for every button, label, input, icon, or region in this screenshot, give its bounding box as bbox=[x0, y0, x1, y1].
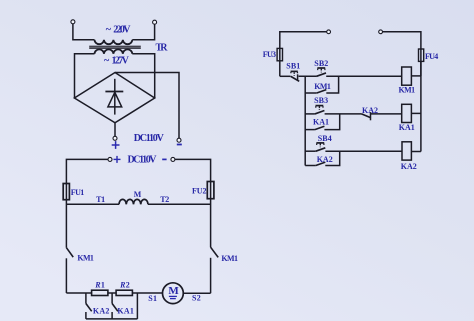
svg-text:FU1: FU1 bbox=[71, 188, 85, 197]
terminal main minus bbox=[171, 157, 175, 161]
wire: bridge plus output bbox=[114, 123, 116, 137]
terminal DC minus bbox=[177, 138, 181, 142]
fuse FU2 bbox=[207, 182, 214, 199]
contact KA1 blade (bypass R2) bbox=[112, 304, 118, 312]
contact KM1 aux rung bbox=[305, 92, 317, 94]
wire: right 220V lead bbox=[132, 24, 154, 40]
resistor R2 bbox=[116, 290, 132, 295]
svg-text:KA2: KA2 bbox=[401, 162, 417, 171]
wire: KA2 coil to right rail bbox=[411, 151, 421, 153]
fuse FU1 bbox=[63, 184, 69, 200]
contact KM1 left (blade) bbox=[66, 248, 73, 257]
terminal L2 (220V right) bbox=[153, 20, 157, 24]
pushbutton SB1 (NC) bbox=[280, 71, 299, 81]
wire: field branch right bbox=[148, 203, 211, 205]
wire: main circuit plus feed bbox=[66, 159, 108, 247]
svg-text:220V: 220V bbox=[113, 24, 131, 35]
svg-text:S1: S1 bbox=[148, 294, 157, 303]
svg-text:KM1: KM1 bbox=[314, 82, 331, 91]
plus sign main bbox=[114, 156, 121, 163]
wire: KA2 aux to junction bbox=[325, 151, 339, 165]
svg-text:KA2: KA2 bbox=[362, 106, 378, 115]
svg-text:M: M bbox=[134, 190, 142, 199]
svg-text:FU2: FU2 bbox=[192, 186, 207, 195]
svg-text:SB4: SB4 bbox=[318, 134, 332, 143]
motor field winding M bbox=[119, 199, 148, 204]
wire: KA1 coil to right rail bbox=[411, 112, 421, 114]
wire: left 220V lead bbox=[73, 24, 95, 40]
wire: right rail bbox=[420, 61, 422, 151]
contact KM1 aux blade bbox=[317, 90, 327, 93]
wire: bypass drop 1 lower bbox=[85, 312, 87, 319]
wire: bypass drop 1 bbox=[85, 293, 87, 304]
wire: bottom run left bbox=[66, 292, 91, 294]
svg-text:M: M bbox=[168, 285, 179, 297]
pushbutton SB4 (NO) bbox=[316, 143, 326, 151]
terminal control left bbox=[327, 30, 331, 34]
svg-text:R2: R2 bbox=[119, 281, 130, 290]
svg-text:T1: T1 bbox=[96, 195, 105, 204]
wire: R2 to motor bbox=[132, 292, 162, 294]
svg-text:DC110V: DC110V bbox=[128, 155, 158, 166]
bridge diode symbol bbox=[105, 79, 123, 115]
wire: KM1 coil to right rail bbox=[411, 75, 421, 77]
wire: SB3 to KA2 NC bbox=[325, 113, 362, 115]
contact KA1 aux rung bbox=[305, 129, 315, 131]
svg-text:KA2: KA2 bbox=[93, 307, 110, 316]
wire: KA2 NC to KA1 coil bbox=[371, 113, 402, 115]
svg-text:S2: S2 bbox=[192, 293, 201, 302]
wire: between R1 R2 bbox=[108, 292, 116, 294]
pushbutton SB2 (NO) bbox=[317, 68, 327, 76]
contact KA2 blade (bypass R1) bbox=[86, 304, 92, 312]
coil KA2 bbox=[402, 142, 411, 160]
svg-text:127V: 127V bbox=[112, 56, 130, 67]
svg-text:R1: R1 bbox=[94, 281, 105, 290]
wire: bypass drop 2 lower bbox=[111, 312, 113, 319]
svg-text:~: ~ bbox=[106, 24, 112, 35]
wire: KM1 aux to junction bbox=[326, 76, 338, 93]
svg-text:SB3: SB3 bbox=[314, 96, 328, 105]
svg-text:KM1: KM1 bbox=[399, 86, 416, 95]
pushbutton SB3 (NO) bbox=[315, 106, 325, 114]
svg-text:TR: TR bbox=[156, 43, 169, 54]
wire: field branch left bbox=[66, 203, 119, 205]
fuse FU3 bbox=[277, 48, 282, 60]
wire: SB1 to SB2 bbox=[299, 75, 317, 77]
wire: secondary left lead to bridge bbox=[75, 54, 95, 98]
coil KA1 bbox=[402, 104, 412, 122]
wire: bypass drop 2 bbox=[111, 293, 113, 304]
transformer TR secondary winding bbox=[95, 49, 133, 53]
wire: left rail below KM1 bbox=[65, 258, 67, 293]
svg-text:KA1: KA1 bbox=[117, 307, 133, 316]
contact KM1 right (blade) bbox=[211, 247, 219, 257]
terminal control right bbox=[379, 30, 383, 34]
motor armature M circle bbox=[163, 283, 184, 304]
contact KA1 aux blade bbox=[315, 126, 325, 129]
svg-text:KA1: KA1 bbox=[313, 118, 329, 127]
wire: KA1 aux to junction bbox=[324, 114, 339, 130]
svg-text:FU3: FU3 bbox=[263, 50, 276, 59]
svg-text:~: ~ bbox=[104, 56, 110, 67]
svg-text:KM1: KM1 bbox=[77, 254, 94, 263]
wire: control left bus vertical bbox=[304, 76, 306, 165]
wire: secondary right lead to bridge bbox=[132, 54, 154, 98]
svg-text:SB1: SB1 bbox=[286, 62, 300, 71]
wire: motor to right rail bbox=[183, 292, 210, 294]
wire: bridge minus output bbox=[115, 73, 179, 139]
resistor R1 bbox=[92, 290, 108, 295]
wire: SB2 to KM1 coil bbox=[326, 75, 402, 77]
coil KM1 bbox=[402, 67, 412, 85]
contact KA2 NC (interlock) bbox=[362, 112, 371, 120]
contact KA2 aux blade bbox=[316, 162, 326, 165]
svg-text:FU4: FU4 bbox=[425, 52, 438, 61]
svg-text:T2: T2 bbox=[160, 195, 169, 204]
wire: SB4 rung left bbox=[305, 150, 316, 152]
wire: main circuit minus feed bbox=[175, 159, 211, 247]
transformer TR primary winding bbox=[95, 40, 133, 44]
svg-text:KA1: KA1 bbox=[399, 123, 415, 132]
bridge rectifier diamond bbox=[74, 73, 154, 123]
svg-text:SB2: SB2 bbox=[314, 59, 328, 68]
minus sign main bbox=[162, 158, 166, 160]
wire: control left feed bbox=[280, 32, 327, 77]
wire: bypass bottom bus bbox=[86, 318, 137, 320]
svg-text:DC110V: DC110V bbox=[134, 133, 165, 144]
plus sign bbox=[112, 141, 120, 149]
svg-text:KM1: KM1 bbox=[221, 254, 238, 263]
wire: SB3 rung left bbox=[305, 113, 315, 115]
svg-text:KA2: KA2 bbox=[317, 155, 333, 164]
wire: right rail below KM1 bbox=[210, 258, 212, 293]
transformer TR core bbox=[89, 46, 141, 48]
fuse FU4 bbox=[419, 49, 424, 61]
terminal L1 (220V left) bbox=[71, 20, 75, 24]
motor M underline bars bbox=[169, 296, 177, 298]
contact KA2 aux rung bbox=[305, 165, 316, 167]
minus sign bbox=[177, 144, 182, 146]
wire: bypass drop 3 bbox=[136, 293, 138, 319]
wire: SB4 to KA2 coil bbox=[325, 150, 402, 152]
wire: control right feed bbox=[382, 32, 421, 76]
terminal DC plus bbox=[113, 136, 117, 140]
terminal main plus bbox=[108, 157, 112, 161]
